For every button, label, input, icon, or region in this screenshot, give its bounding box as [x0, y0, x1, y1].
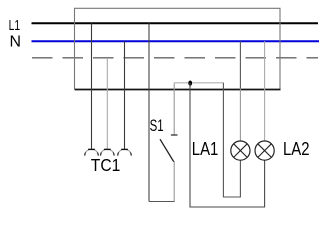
svg-text:TC1: TC1	[91, 155, 121, 175]
svg-text:LA2: LA2	[283, 138, 310, 159]
svg-text:LA1: LA1	[192, 138, 219, 159]
svg-text:S1: S1	[150, 116, 164, 135]
svg-text:N: N	[10, 34, 22, 51]
svg-text:L1: L1	[9, 18, 21, 34]
